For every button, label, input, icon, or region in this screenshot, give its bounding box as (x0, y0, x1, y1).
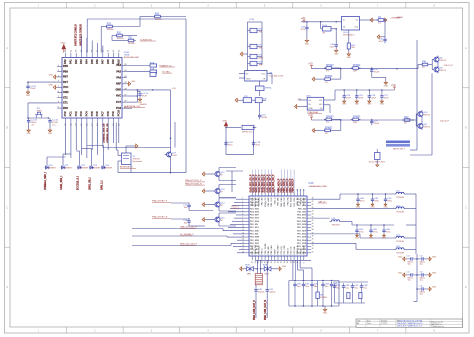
svg-text:PE5_SDN: PE5_SDN (297, 224, 307, 226)
wire from IC1 pin 4 to C24 (27, 81, 57, 84)
svg-text:PC1_CKE: PC1_CKE (294, 197, 296, 207)
svg-text:Title: Title (357, 319, 360, 322)
svg-text:GND: GND (26, 133, 31, 135)
svg-text:ATMGH: ATMGH (81, 167, 88, 170)
diode D6 (101, 165, 113, 170)
resistor R34 (351, 65, 361, 73)
wire C31 up (384, 19, 386, 37)
svg-text:GND: GND (380, 104, 385, 106)
svg-text:PC10: PC10 (117, 109, 120, 116)
svg-text:GND: GND (398, 272, 403, 274)
svg-text:47uF: 47uF (371, 97, 376, 99)
capacitor C91 (302, 280, 310, 307)
capacitor C27 (380, 89, 389, 105)
svg-text:GAB_SD1_D6_P: GAB_SD1_D6_P (266, 174, 269, 192)
svg-text:SPKR2: SPKR2 (325, 128, 333, 130)
transistor Q13 (213, 187, 225, 195)
svg-text:PF1_SDR: PF1_SDR (297, 237, 307, 239)
inductor L22 (330, 218, 395, 226)
capacitor C19 (252, 140, 261, 146)
svg-text:PE4_SDM: PE4_SDM (297, 220, 307, 223)
svg-text:PA2_ADZ: PA2_ADZ (257, 245, 260, 255)
svg-text:PC7: PC7 (101, 111, 104, 116)
svg-text:VSSQ_CC: VSSQ_CC (255, 244, 257, 254)
snubber cluster mid sheet (225, 125, 256, 154)
resistor R37 below (323, 128, 333, 136)
svg-text:TR10UH: TR10UH (396, 197, 405, 199)
capacitor CL70 (406, 254, 417, 265)
svg-text:GND: GND (48, 133, 53, 135)
rail R4 (311, 234, 394, 238)
svg-text:PE3_SDL: PE3_SDL (297, 218, 307, 220)
joins to jumper row (47, 146, 104, 165)
svg-text:35: 35 (312, 239, 314, 241)
svg-text:Size: Size (367, 320, 371, 322)
main wire to regulator (301, 21, 342, 23)
resistor RN vertical (347, 30, 355, 52)
svg-text:PA1: PA1 (70, 59, 73, 64)
svg-text:PA0: PA0 (64, 59, 67, 64)
IC U8 bus transceiver (239, 71, 283, 84)
svg-text:PC5: PC5 (91, 111, 94, 116)
gnd left of R40 (370, 18, 374, 22)
svg-text:SPKR+: SPKR+ (117, 38, 125, 40)
svg-text:VREF_: VREF_ (275, 247, 277, 254)
wires from IC1 bottom pins down (66, 123, 119, 158)
svg-text:AVC: AVC (116, 95, 121, 98)
svg-text:1%: 1% (326, 71, 329, 73)
gnd left of Q13 (202, 189, 213, 193)
gnd flag at IC1 pin 5 (49, 85, 58, 90)
svg-text:GND: GND (369, 237, 374, 239)
svg-text:R21: R21 (128, 38, 133, 40)
svg-text:D: D (465, 286, 467, 289)
junction dot (416, 288, 418, 290)
svg-text:GND: GND (334, 53, 339, 55)
rc network rails (289, 281, 339, 307)
wires pair 1 (418, 60, 438, 70)
wires resistor cluster (101, 17, 186, 53)
svg-text:TR10UH: TR10UH (396, 212, 405, 214)
inductor L20 (394, 205, 406, 213)
svg-text:PA0_ADX: PA0_ADX (303, 245, 306, 255)
svg-text:PB1_WE: PB1_WE (278, 197, 280, 206)
svg-text:20: 20 (265, 261, 267, 263)
svg-text:ARF: ARF (116, 83, 122, 86)
svg-text:PB0_C: PB0_C (262, 247, 264, 254)
svg-text:PA2_ADZ: PA2_ADZ (267, 197, 270, 207)
crystal Y1 (120, 153, 143, 169)
svg-text:GND: GND (355, 237, 360, 239)
svg-text:GND: GND (398, 256, 403, 258)
svg-text:47uF: 47uF (142, 95, 147, 97)
gnd arrow right of output (383, 18, 387, 22)
net label ENABLE DC (160, 64, 176, 67)
IC18 main processor (242, 183, 327, 263)
gnd left of CL71 (398, 272, 407, 277)
svg-text:47uF: 47uF (384, 97, 389, 99)
resistor R19 (105, 24, 115, 32)
resistor R38 (351, 117, 361, 125)
decoupling chain center wire (414, 254, 418, 302)
resistor R36 (324, 117, 334, 125)
resistor R42 (402, 117, 412, 125)
svg-text:PB0_CLK: PB0_CLK (271, 197, 273, 207)
svg-text:PMA_AD2_P: PMA_AD2_P (283, 178, 286, 192)
transient suppressor MH1 (245, 265, 253, 276)
svg-text:VDD_C: VDD_C (275, 197, 277, 204)
gnd below rc (323, 306, 328, 314)
svg-text:Cnt: Cnt (406, 270, 410, 273)
svg-text:GND: GND (49, 74, 54, 76)
svg-text:32: 32 (312, 248, 314, 250)
power +VD row A (308, 64, 313, 69)
svg-text:PMA_USB_DAT_P: PMA_USB_DAT_P (253, 300, 256, 320)
svg-text:CON: CON (249, 19, 254, 21)
svg-text:PC1: PC1 (70, 111, 73, 116)
svg-text:GND: GND (367, 104, 372, 106)
transistor Q15 (213, 216, 225, 224)
capacitor C24 (342, 89, 351, 105)
svg-text:PE3_SDL: PE3_SDL (250, 234, 260, 236)
resistor R21 (126, 38, 136, 46)
inductor L16 (394, 191, 406, 199)
net label SAB_1_I (101, 180, 104, 190)
wires pair 2 (402, 114, 422, 126)
svg-text:DSDS-SV17 MAIN Sheet 2 of: DSDS-SV17 MAIN Sheet 2 of (397, 325, 422, 328)
svg-text:PA7: PA7 (101, 59, 104, 64)
svg-text:GND: GND (432, 256, 437, 258)
svg-text:PA3: PA3 (80, 59, 83, 64)
gnd below C33 (305, 39, 310, 46)
wires below caps + usb labels (253, 260, 267, 320)
svg-text:IC18: IC18 (309, 183, 315, 185)
svg-text:VDDQ_BB: VDDQ_BB (255, 197, 257, 207)
svg-text:PD0_SDA: PD0_SDA (297, 239, 307, 242)
gnd left of R35 (312, 77, 323, 81)
capacitor C64 (355, 224, 364, 239)
resistor R20 (115, 33, 125, 41)
svg-text:D: D (6, 286, 8, 289)
capacitor C90 (293, 280, 301, 307)
svg-text:GAB_SD1_D2_P: GAB_SD1_D2_P (255, 174, 258, 192)
svg-text:PC2_CS: PC2_CS (291, 246, 293, 254)
svg-text:GND: GND (26, 95, 31, 97)
IC U2 ATMEGA microcontroller (57, 49, 139, 126)
power +CD node (127, 88, 177, 151)
svg-text:ATMGH: ATMGH (49, 167, 56, 170)
svg-text:PE2_SDK: PE2_SDK (250, 230, 260, 232)
svg-text:63: 63 (297, 189, 299, 191)
svg-text:ECCD12_S_I: ECCD12_S_I (78, 176, 80, 190)
net label PMA_HTSCLK_P (185, 179, 205, 182)
transistor Q14 (213, 201, 225, 209)
power arrow at snubber (223, 121, 228, 128)
svg-text:BLW: BLW (245, 265, 249, 267)
gnd below C24 (26, 91, 31, 97)
svg-text:TR10UH: TR10UH (332, 224, 341, 226)
resistor R75 (239, 96, 252, 103)
resistor R74 below U8 (255, 81, 272, 96)
capacitor CR80 (417, 254, 428, 265)
svg-text:XT1: XT1 (63, 102, 68, 105)
svg-text:43: 43 (312, 214, 314, 216)
power +VD caps row (391, 85, 396, 90)
bottom junction rail (255, 259, 311, 261)
svg-text:R20: R20 (117, 33, 122, 35)
gnd below C22 (48, 124, 53, 135)
capacitor C35 (370, 67, 380, 77)
capacitor C25 (355, 89, 364, 105)
capacitor C41 (266, 287, 277, 293)
capacitor C24 (26, 84, 36, 90)
gnd flag at IC1 pin 3 (49, 74, 58, 79)
svg-text:47: 47 (312, 201, 314, 203)
capacitor C22 (48, 118, 59, 126)
svg-text:BLACK: BLACK (140, 103, 147, 106)
svg-text:PD3_SDD: PD3_SDD (250, 208, 260, 210)
svg-text:PC8: PC8 (107, 111, 110, 116)
svg-text:1%: 1% (326, 122, 329, 124)
svg-text:LMT94: LMT94 (439, 60, 446, 62)
svg-text:PA8: PA8 (107, 59, 110, 64)
net label PMA_STDBY_P (152, 200, 171, 203)
svg-text:47u/8: 47u/8 (374, 123, 380, 125)
svg-text:PA9: PA9 (112, 59, 115, 64)
svg-text:GND: GND (323, 312, 328, 314)
svg-text:R41: R41 (422, 62, 427, 64)
svg-text:470uF: 470uF (30, 88, 36, 90)
capacitor C26 (367, 89, 376, 105)
svg-text:PA4: PA4 (86, 59, 89, 64)
crystal Y2 32k (27, 108, 49, 119)
svg-text:PB6: PB6 (63, 70, 68, 73)
svg-text:VSS_EE: VSS_EE (297, 197, 299, 205)
svg-text:Cnt: Cnt (420, 284, 424, 287)
long vertical wires right (410, 40, 432, 155)
svg-text:GND: GND (432, 272, 437, 274)
diode D3 (61, 165, 73, 170)
extra bus stubs (233, 234, 245, 253)
connector CON label (249, 19, 254, 21)
svg-text:PC2: PC2 (75, 111, 78, 116)
svg-text:LMT94: LMT94 (439, 70, 446, 72)
wires transistors to IC2 (219, 168, 236, 227)
svg-text:R42: R42 (404, 117, 409, 119)
gnd left of amp (295, 105, 308, 109)
gnd left of C31 (377, 35, 385, 39)
title block (356, 319, 463, 328)
net label ECCD12_S_I (78, 176, 80, 190)
svg-text:40: 40 (312, 223, 314, 225)
loop wires row A (332, 68, 340, 79)
svg-text:8: 8 (303, 262, 305, 263)
svg-text:18: 18 (271, 261, 273, 263)
svg-text:41: 41 (312, 220, 314, 222)
svg-text:Gnd: Gnd (354, 26, 358, 28)
svg-text:PA2: PA2 (75, 59, 78, 64)
svg-text:U-DB7_N: U-DB7_N (231, 208, 240, 210)
svg-text:+VD: +VD (301, 18, 306, 20)
svg-text:PE0_SDI: PE0_SDI (250, 224, 259, 226)
svg-text:SAB_1_I: SAB_1_I (101, 180, 104, 190)
svg-text:+MAIN: +MAIN (396, 16, 403, 19)
transient suppressor MH2 (263, 265, 271, 276)
gnd left of CL70 (398, 256, 407, 261)
wire from IC1 pin 7 to crystal (28, 103, 57, 118)
resistor R18 (153, 14, 163, 22)
svg-text:Date:: Date: (367, 322, 372, 325)
resistor GR vertical in rc (316, 281, 327, 307)
svg-text:GND: GND (347, 57, 352, 59)
capacitor CL71 (406, 270, 417, 281)
resistor R17 small (150, 73, 156, 77)
diode D5 (89, 165, 101, 170)
wires stdby (171, 203, 213, 226)
svg-text:13: 13 (287, 261, 289, 263)
svg-text:PD7_SDH: PD7_SDH (250, 221, 260, 223)
transistor Q10 (416, 110, 431, 118)
capacitor C62 (383, 193, 392, 208)
svg-text:SPKR+: SPKR+ (155, 19, 163, 21)
svg-text:ADW: ADW (259, 56, 264, 59)
resistor R72 (248, 54, 264, 59)
transistor Q8 (432, 56, 447, 64)
capacitor C65 (369, 224, 378, 239)
svg-text:PC6: PC6 (116, 107, 121, 110)
svg-text:5-17-07: 5-17-07 (381, 323, 387, 325)
svg-text:XTAL1_A: XTAL1_A (251, 197, 254, 206)
rail R1 (311, 194, 394, 199)
gnd left of R37 (312, 129, 323, 133)
resistor R76 (252, 98, 268, 103)
wire joining cluster top (226, 170, 243, 172)
svg-text:PA6: PA6 (116, 76, 121, 79)
svg-text:PA5: PA5 (116, 70, 121, 73)
capacitor C97 (351, 283, 359, 303)
svg-text:PC2_C: PC2_C (300, 197, 302, 204)
svg-text:SPKR2: SPKR2 (326, 65, 334, 67)
svg-text:+VD: +VD (308, 115, 313, 117)
svg-text:XTAL1_A: XTAL1_A (296, 245, 299, 254)
svg-text:C945: C945 (172, 155, 178, 157)
svg-text:PF0_SDQ: PF0_SDQ (297, 234, 307, 236)
gnd below RN (347, 52, 352, 59)
svg-text:PC3_BA: PC3_BA (293, 246, 296, 254)
svg-text:VDD_CORE: VDD_CORE (265, 243, 267, 255)
capacitor C18 (224, 140, 233, 146)
gnd below C23 (26, 124, 31, 135)
svg-text:GND: GND (382, 237, 387, 239)
regulator output wire (360, 19, 383, 21)
svg-text:PE1_SDJ: PE1_SDJ (297, 211, 306, 213)
svg-text:GND: GND (49, 85, 54, 87)
svg-text:LMT94: LMT94 (423, 115, 430, 117)
svg-text:GND: GND (246, 79, 251, 81)
diode D2 (45, 165, 57, 170)
svg-text:GND: GND (342, 104, 347, 106)
svg-text:PA1_AD: PA1_AD (261, 197, 264, 205)
svg-text:SPKR2: SPKR2 (325, 76, 333, 78)
svg-text:PD5_SDF: PD5_SDF (250, 215, 260, 217)
resistor R71 (248, 44, 264, 49)
gnd below C7a (138, 98, 143, 104)
gnd left of R75 (235, 98, 239, 102)
svg-text:PB3_RAS: PB3_RAS (277, 245, 280, 255)
svg-text:31: 31 (312, 251, 314, 253)
resistor R73 (248, 61, 264, 66)
svg-text:GND: GND (432, 286, 437, 288)
svg-text:VCC: VCC (261, 73, 266, 75)
svg-text:SPKR2: SPKR2 (326, 117, 334, 119)
wires from IC1 top pins to top rail (82, 19, 186, 173)
svg-text:36: 36 (312, 236, 314, 238)
svg-text:19: 19 (268, 261, 270, 263)
capacitor C61 (370, 193, 379, 208)
svg-text:GND: GND (115, 89, 121, 92)
rc2 resistors vertical (335, 293, 366, 304)
rail row C (312, 119, 415, 121)
net label JD_SDRAM_P wire (132, 233, 245, 237)
svg-text:PA5: PA5 (91, 59, 94, 64)
resistor R35 below (323, 76, 333, 84)
svg-text:Number: Number (381, 320, 388, 322)
net label CON060 SD (140, 39, 156, 41)
svg-text:PB2_CAS: PB2_CAS (270, 245, 273, 255)
transistor Q17 (165, 151, 178, 159)
svg-text:VREF_DD: VREF_DD (284, 197, 286, 207)
amp input wires (299, 99, 308, 101)
svg-text:HB BD GH 1: HB BD GH 1 (393, 148, 406, 150)
svg-text:PCB-DB DSDS SV-17J8 MA: PCB-DB DSDS SV-17J8 MA (398, 319, 423, 322)
capacitor C92 (310, 280, 318, 307)
svg-text:PE0_SDI: PE0_SDI (298, 208, 307, 210)
svg-text:PD6_SDG: PD6_SDG (250, 218, 260, 220)
svg-text:PMA_AD1_P: PMA_AD1_P (280, 178, 283, 192)
svg-text:24LC4_P: 24LC4_P (444, 65, 454, 67)
svg-text:ATMGH: ATMGH (93, 167, 100, 170)
svg-text:+CD: +CD (172, 88, 177, 90)
svg-text:1 Melhm-ta-t.Oe: 1 Melhm-ta-t.Oe (431, 325, 444, 328)
amp input labels (297, 99, 301, 101)
svg-text:SPKR2: SPKR2 (353, 65, 361, 67)
svg-text:1%: 1% (325, 133, 328, 135)
svg-text:10R: 10R (353, 122, 357, 124)
svg-text:TR10UH: TR10UH (396, 252, 405, 254)
capacitor CR81 (417, 270, 428, 281)
capacitor C55 bottom of chain (258, 103, 268, 119)
svg-text:22: 22 (258, 261, 260, 263)
svg-text:GND: GND (383, 206, 388, 208)
svg-text:PC4: PC4 (86, 111, 89, 116)
capacitor C40 (254, 287, 265, 293)
svg-text:GND: GND (308, 108, 313, 110)
svg-text:46: 46 (312, 204, 314, 206)
svg-text:LMT94: LMT94 (423, 127, 430, 129)
net label ATMEGA_SB0_I (44, 172, 47, 190)
wires crystal (116, 123, 186, 174)
rail row A (312, 68, 419, 70)
svg-text:PA10: PA10 (117, 59, 120, 66)
svg-text:PE6_SDO: PE6_SDO (250, 243, 260, 245)
svg-text:21: 21 (261, 261, 263, 263)
resistor ECB1 at IC1 right pin (127, 62, 157, 67)
net label PMA_STDBY_N (152, 216, 171, 219)
svg-text:24: 24 (252, 261, 254, 263)
wires MH (244, 260, 278, 273)
wires rc to IC2 bottom (293, 260, 312, 280)
svg-text:PC7: PC7 (116, 101, 121, 104)
